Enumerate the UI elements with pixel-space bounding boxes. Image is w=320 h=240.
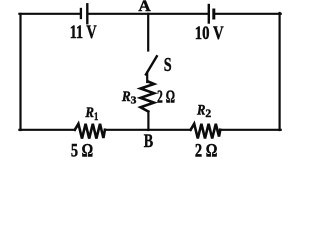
svg-text:2 Ω: 2 Ω [157,87,175,107]
battery 10V [209,5,214,23]
svg-text:1: 1 [94,111,99,123]
wire bottom-right segment [220,129,281,131]
switch S blade [146,56,157,74]
wire left side [19,14,21,130]
svg-text:S: S [164,54,172,76]
resistor R3 [141,82,155,112]
svg-text:A: A [138,0,151,15]
wire bottom-left segment [19,129,74,131]
svg-text:2 Ω: 2 Ω [195,142,218,162]
wire top-left segment [19,13,80,15]
battery 11V [81,4,87,23]
svg-text:B: B [144,131,154,152]
wire top-middle segment [88,13,207,15]
wire branch from node A [147,14,149,51]
svg-text:R: R [121,89,131,105]
wire top-right segment [215,13,280,15]
svg-text:R: R [196,103,205,119]
wire switch to R3 [146,73,148,83]
label R3 [121,89,137,107]
svg-text:2: 2 [205,108,211,120]
svg-text:5 Ω: 5 Ω [71,142,93,162]
wire R3 to node B [147,112,149,131]
wire bottom-middle segment [105,129,191,131]
svg-text:R: R [85,105,94,121]
wire right side [279,13,281,130]
resistor R1 [75,124,105,139]
svg-text:10 V: 10 V [195,24,224,44]
resistor R2 [191,124,221,139]
svg-text:11 V: 11 V [70,23,97,43]
svg-text:3: 3 [131,95,137,107]
label R2 [196,103,211,121]
label R1 [85,105,99,123]
